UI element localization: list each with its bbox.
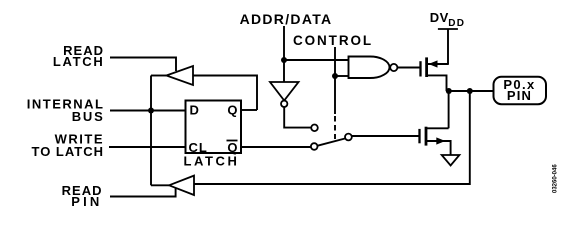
svg-text:ADDR/DATA: ADDR/DATA [240, 11, 333, 27]
wire READ LATCH to inverter top [110, 58, 176, 72]
label DVDD [430, 10, 465, 29]
wire U1 output to PMOS gate [397, 67, 419, 69]
svg-text:LATCH: LATCH [183, 154, 239, 169]
node internal bus junction [148, 108, 154, 114]
label INTERNAL BUS [27, 97, 105, 125]
wire READ PIN to buffer enable [110, 188, 176, 196]
switch pivot [345, 134, 352, 141]
wire vertical internal bus [150, 76, 152, 186]
wire INTERNAL BUS to latch D [110, 110, 185, 112]
svg-text:DD: DD [448, 18, 465, 29]
power rail DVDD [438, 28, 458, 30]
wire DVDD to PMOS source [447, 29, 449, 64]
svg-text:PIN: PIN [71, 194, 102, 209]
latch U3 box [186, 101, 242, 154]
svg-text:CONTROL: CONTROL [293, 33, 373, 48]
node CONTROL junction [332, 73, 338, 79]
wire WRITE TO LATCH to latch CL [109, 146, 185, 148]
terminal P0.x PIN box [494, 77, 547, 105]
label READ PIN [62, 183, 103, 209]
node pin junction 2 [467, 88, 473, 94]
wire ADDR/DATA down [283, 26, 285, 82]
svg-text:BUS: BUS [72, 109, 105, 124]
label WRITE TO LATCH [31, 131, 104, 159]
switch contact lower [311, 143, 318, 150]
transistor Q2 NMOS [420, 127, 451, 155]
svg-text:D: D [190, 102, 199, 117]
bubble U1 [390, 64, 397, 71]
wire to NAND input A [284, 59, 349, 61]
wire Q-bar to switch contact [241, 146, 311, 148]
wire to NAND input B [335, 75, 349, 77]
node ADDR/DATA junction [281, 57, 287, 63]
wire CONTROL down [334, 47, 336, 114]
switch contact upper [311, 125, 318, 132]
wire node to NMOS drain [448, 91, 450, 128]
NAND gate U1 [349, 57, 390, 79]
wire dashed control to switch [334, 116, 336, 139]
svg-text:PIN: PIN [507, 88, 532, 103]
bubble U5 [281, 101, 287, 107]
wire U5 output to switch contact [284, 107, 311, 128]
transistor Q1 PMOS [421, 57, 449, 91]
svg-text:LATCH: LATCH [53, 54, 105, 69]
wire U2 input from Q [193, 76, 257, 111]
wire U4 input from pin feedback [194, 91, 470, 184]
svg-text:03260-046: 03260-046 [553, 164, 559, 193]
wire Q output to corner [241, 109, 257, 111]
node pin junction 1 [446, 88, 452, 94]
wire pivot to NMOS gate [352, 135, 419, 137]
inverter U2 (read-latch buffer, points left) [166, 66, 193, 85]
switch arm [318, 139, 345, 146]
wire U4 output to vertical bus [151, 184, 169, 186]
svg-text:Q: Q [227, 102, 237, 117]
label READ LATCH [53, 43, 105, 69]
wire U2 output to vertical bus [151, 75, 166, 77]
ground [442, 155, 460, 166]
inverter U4 (read-pin buffer, points left) [169, 176, 194, 195]
wire pin node to P0.x box [447, 90, 494, 92]
svg-text:TO LATCH: TO LATCH [31, 144, 104, 159]
inverter U5 (addr/data, points down) [270, 82, 299, 101]
svg-text:DV: DV [430, 10, 449, 25]
